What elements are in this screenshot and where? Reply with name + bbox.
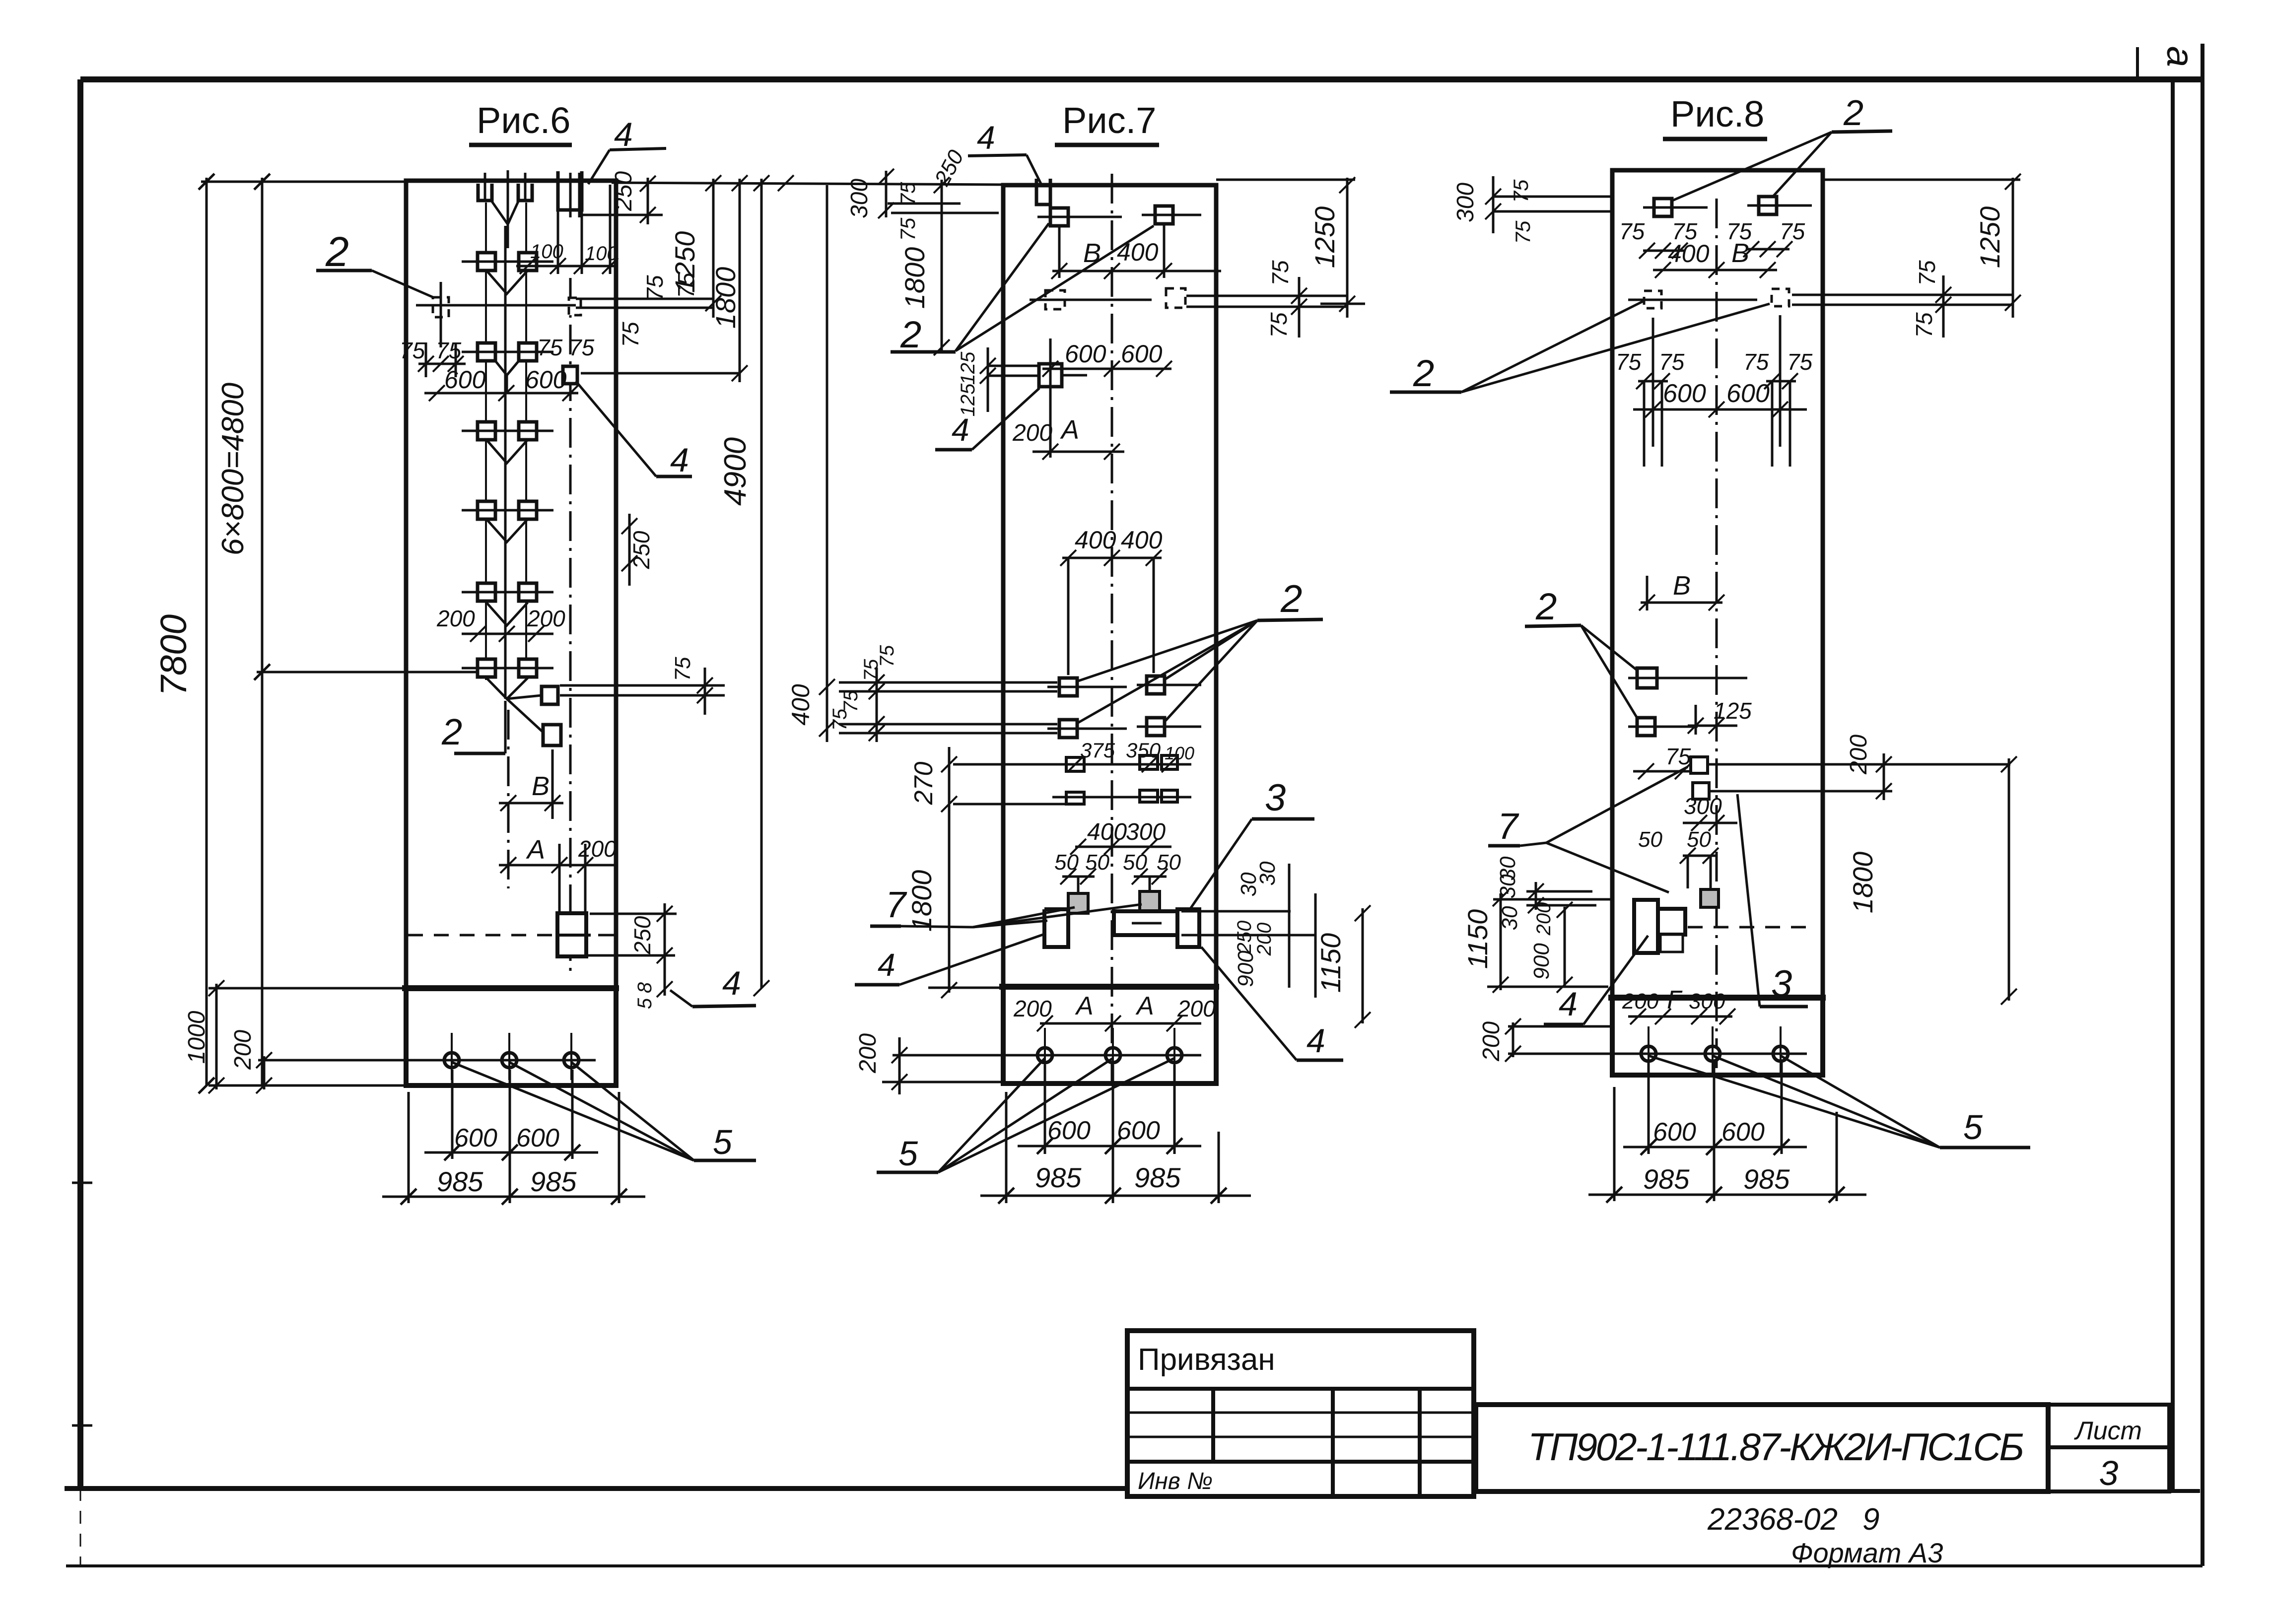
- fig7 dim 1800 left lower: [948, 814, 951, 993]
- fig8 panel lower part outline: [1612, 998, 1823, 1075]
- svg-text:600: 600: [1047, 1116, 1091, 1145]
- svg-text:125: 125: [957, 351, 979, 385]
- fig6 right dim vertical 1250: [712, 179, 715, 318]
- fig8 anchor hole circles: [1641, 1046, 1656, 1061]
- fig7 base bar plate: [1114, 911, 1177, 935]
- fig7 left top extension pair: [888, 203, 961, 205]
- svg-text:7800: 7800: [153, 614, 194, 696]
- svg-text:75: 75: [1665, 744, 1691, 769]
- fig8 dim vertical 1800 right: [2008, 758, 2010, 1001]
- svg-text:600: 600: [1663, 379, 1706, 408]
- svg-text:3: 3: [1771, 963, 1792, 1005]
- svg-text:1250: 1250: [1309, 206, 1340, 269]
- fig6 panel top notch: [558, 171, 582, 210]
- svg-text:1250: 1250: [669, 231, 700, 293]
- fig6 offset plate SqB: [543, 725, 561, 745]
- fig7 bottom extension lines: [1044, 1065, 1046, 1154]
- fig6 guide verticals at top loops: [484, 173, 486, 201]
- svg-text:75: 75: [618, 322, 643, 347]
- fig6 right top extension line: [612, 183, 1003, 185]
- fig8 line through dashed plates: [1628, 299, 1757, 301]
- svg-text:5: 5: [898, 1134, 918, 1173]
- fig8 embedded plate mid 2: [1637, 718, 1655, 736]
- svg-text:75: 75: [1743, 349, 1769, 375]
- svg-text:400: 400: [1121, 526, 1163, 554]
- fig6 dim 250 mid right: [628, 514, 631, 586]
- fig6 bent leads from row7 to offset plates: [486, 678, 528, 699]
- svg-text:75: 75: [876, 645, 898, 667]
- fig6 bottom extension lines: [451, 1070, 454, 1159]
- sheet frame right outer border: [2201, 44, 2204, 1566]
- sheet frame bottom border right part: [2168, 1489, 2200, 1493]
- svg-text:А: А: [1135, 992, 1154, 1020]
- fig8 left top extension pair: [1493, 196, 1612, 198]
- svg-text:1800: 1800: [906, 870, 937, 932]
- fig6 left dim vertical 6x800: [261, 178, 264, 1085]
- svg-text:985: 985: [1743, 1163, 1790, 1195]
- fig6 plate top extension: [590, 913, 677, 915]
- svg-text:600: 600: [516, 1124, 559, 1152]
- svg-text:400: 400: [1087, 819, 1127, 845]
- sheet frame left border: [77, 79, 83, 1489]
- svg-text:75: 75: [1616, 349, 1642, 375]
- fig7 panel lower part outline: [1003, 987, 1216, 1083]
- fig7 dashed plate mid right: [1166, 288, 1185, 308]
- svg-text:4: 4: [722, 964, 741, 1002]
- svg-text:4900: 4900: [718, 437, 753, 506]
- fig6 embedded plate pair row4: [478, 422, 495, 440]
- main title block box: [1476, 1405, 2048, 1491]
- svg-text:7: 7: [1498, 806, 1519, 847]
- svg-text:985: 985: [437, 1166, 483, 1197]
- svg-text:2: 2: [1843, 93, 1863, 133]
- fig6 line through circles: [386, 1059, 596, 1062]
- svg-text:600: 600: [525, 366, 567, 394]
- svg-text:50: 50: [1085, 850, 1109, 875]
- fig8 embedded plate top right: [1759, 197, 1777, 214]
- svg-text:600: 600: [1117, 1116, 1160, 1145]
- svg-text:4: 4: [878, 947, 895, 983]
- fig6 dim 250 notch depth: [647, 178, 649, 224]
- svg-text:2: 2: [441, 711, 462, 752]
- fig7 panel upper outline: [1003, 185, 1216, 987]
- fig6 division line left extension: [208, 987, 404, 990]
- svg-text:1150: 1150: [1462, 909, 1493, 969]
- svg-text:2: 2: [1535, 586, 1557, 628]
- fig7 stippled anchor plate left: [1068, 893, 1088, 913]
- fig7 panel top notch: [1036, 179, 1050, 204]
- svg-text:1250: 1250: [1974, 206, 2005, 269]
- svg-text:А: А: [1075, 992, 1094, 1020]
- svg-text:300: 300: [1452, 183, 1479, 222]
- svg-text:4: 4: [1559, 985, 1578, 1023]
- fig6 centerline axis right: [569, 278, 572, 973]
- fig7 embedded plate top left: [1050, 208, 1068, 226]
- svg-text:100: 100: [1165, 743, 1194, 763]
- fig6 lifting loop V under row6: [486, 603, 528, 625]
- svg-text:50: 50: [1157, 850, 1181, 875]
- svg-text:985: 985: [530, 1166, 577, 1197]
- svg-text:600: 600: [454, 1124, 497, 1152]
- svg-text:75: 75: [829, 708, 851, 731]
- fig6 horizontal line through plate level: [416, 304, 576, 307]
- svg-text:75: 75: [642, 275, 668, 301]
- svg-text:75: 75: [1787, 349, 1813, 375]
- fig6 extension from right plate: [581, 372, 740, 375]
- fig7 left extension pairs rows: [839, 681, 1057, 684]
- fig6 top dim connector line: [201, 181, 406, 183]
- fig8 base bracket plate: [1634, 900, 1658, 953]
- svg-text:600: 600: [1653, 1118, 1696, 1147]
- svg-text:Привязан: Привязан: [1138, 1343, 1275, 1377]
- svg-text:200: 200: [230, 1030, 256, 1070]
- stamp vertical divider 3: [1418, 1389, 1422, 1496]
- fig6 left dim vertical 7800: [206, 178, 208, 1085]
- fig8 base square plate: [1658, 909, 1685, 935]
- svg-text:2: 2: [325, 228, 349, 275]
- list box divider: [2048, 1445, 2169, 1449]
- svg-text:4: 4: [670, 441, 689, 479]
- fig7 dim 200 lower left: [898, 1037, 901, 1094]
- fig8 stippled anchor plate: [1701, 889, 1719, 907]
- fig8 embedded plate top left: [1654, 199, 1672, 216]
- svg-text:4: 4: [614, 116, 633, 153]
- fig8 dashed plate mid right: [1772, 289, 1789, 306]
- fig6 lifting loop V under row1: [492, 202, 518, 224]
- list box: [2048, 1405, 2169, 1491]
- sheet bottom edge line: [66, 1564, 2202, 1567]
- fig6 anchor loop row1 right: [518, 184, 532, 201]
- fig8 centerline axis: [1716, 199, 1718, 1075]
- svg-text:300: 300: [1684, 793, 1722, 819]
- fig6 dim 1000 lower left: [215, 984, 218, 1089]
- svg-text:75: 75: [671, 657, 695, 681]
- fig7 embedded plate group 2x2: [1059, 678, 1077, 696]
- svg-text:75: 75: [1266, 312, 1292, 338]
- svg-text:Инв №: Инв №: [1138, 1468, 1213, 1494]
- svg-text:600: 600: [1721, 1118, 1765, 1147]
- fig8 line through circles: [1579, 1053, 1807, 1055]
- fig6 dim 75 pair at offset plate: [560, 684, 725, 687]
- fig6 embed column guide line above top edge: [507, 170, 509, 228]
- fig6 extension pair from dashed plate: [576, 298, 713, 300]
- svg-text:9: 9: [1862, 1502, 1879, 1537]
- fold mark tick top right: [2136, 47, 2139, 81]
- fig6 dim 100 100 at notch: [516, 265, 616, 268]
- svg-text:100: 100: [585, 243, 618, 265]
- fig8 top dim connector: [1823, 179, 2020, 181]
- fig8 panel upper outline: [1612, 170, 1823, 998]
- svg-text:985: 985: [1035, 1162, 1082, 1193]
- svg-text:75: 75: [436, 338, 462, 363]
- svg-text:7: 7: [886, 884, 907, 925]
- fig7 panel division line: [999, 984, 1219, 990]
- svg-text:2: 2: [1280, 577, 1302, 620]
- stamp vertical divider 1: [1211, 1389, 1215, 1462]
- fig6 column axis right continuous: [525, 203, 527, 680]
- stamp thin row line 2: [1127, 1436, 1474, 1438]
- fig6 lifting loop V under row2: [486, 271, 528, 294]
- svg-text:200: 200: [578, 836, 617, 862]
- fig6 dashed plate at left edge: [433, 297, 449, 317]
- svg-text:200: 200: [1013, 996, 1052, 1021]
- fig7 centerline axis: [1111, 174, 1113, 1083]
- svg-text:75: 75: [1914, 260, 1940, 286]
- fig6 anchor loop row1 left: [478, 184, 492, 201]
- svg-text:А: А: [1060, 415, 1079, 445]
- svg-text:75: 75: [1659, 349, 1685, 375]
- fig8 dashed plate mid left: [1644, 291, 1661, 308]
- svg-text:5: 5: [1963, 1108, 1983, 1147]
- fig7 left dim vertical 400: [826, 185, 828, 742]
- sheet frame bottom border left part: [65, 1486, 1128, 1491]
- fig6 right dim vertical 1800: [739, 179, 741, 382]
- fig6 embedded plate pair row2: [478, 253, 495, 271]
- fig7 line through circles: [893, 1054, 1201, 1057]
- svg-text:4: 4: [977, 119, 995, 156]
- svg-text:600: 600: [1726, 379, 1770, 408]
- fig6 lifting loop V under row4: [486, 440, 528, 463]
- fig6 row7 extension to dim lines: [257, 671, 477, 674]
- svg-text:200: 200: [1012, 420, 1052, 446]
- svg-text:а: а: [2159, 46, 2201, 67]
- svg-text:250: 250: [628, 531, 654, 569]
- svg-text:1800: 1800: [710, 267, 741, 329]
- svg-text:375: 375: [1080, 739, 1115, 762]
- fig7 dim 270 left: [948, 747, 951, 814]
- fig8 small plate 2 with line: [1693, 783, 1709, 799]
- fig8 embedded plate mid 1: [1637, 668, 1657, 688]
- svg-text:250: 250: [629, 916, 655, 954]
- svg-text:600: 600: [1121, 340, 1163, 368]
- svg-text:600: 600: [1065, 340, 1106, 368]
- fig6 panel lower part outline: [406, 988, 616, 1085]
- svg-text:200: 200: [855, 1033, 881, 1074]
- stamp thin row line 1: [1127, 1412, 1474, 1414]
- svg-text:2: 2: [900, 314, 921, 356]
- fig7 base bracket plate right: [1177, 909, 1199, 947]
- fig7 dim vertical 1800 left: [941, 180, 943, 350]
- svg-text:3: 3: [1265, 777, 1286, 819]
- svg-text:300: 300: [846, 179, 873, 218]
- fig7 extension pair to right dims: [1186, 295, 1347, 297]
- fig6 panel division line: [402, 985, 619, 991]
- fig6 right dim vertical 4900: [760, 179, 763, 988]
- svg-text:400: 400: [1075, 526, 1116, 554]
- svg-text:50: 50: [1123, 850, 1147, 875]
- fig7 top dim connector: [1216, 179, 1355, 181]
- fig8 left lower extension lines: [1526, 890, 1592, 893]
- svg-text:200: 200: [527, 606, 565, 631]
- svg-text:75: 75: [1911, 312, 1937, 338]
- svg-text:1800: 1800: [1847, 852, 1878, 914]
- fig7 dim 1150 right: [1362, 908, 1364, 1023]
- left sheet edge stub below frame: [80, 1488, 81, 1566]
- fig7 left top dim vertical: [885, 171, 888, 217]
- svg-text:Рис.7: Рис.7: [1062, 100, 1156, 141]
- fig6 embedded plate pair row5: [478, 501, 495, 519]
- fig8 extension pair to right dims: [1792, 294, 2013, 296]
- svg-text:75: 75: [1619, 218, 1645, 244]
- svg-text:Рис.6: Рис.6: [477, 100, 570, 141]
- svg-text:2: 2: [1413, 352, 1434, 395]
- svg-text:200: 200: [1478, 1021, 1505, 1062]
- svg-text:Формат А3: Формат А3: [1791, 1537, 1943, 1568]
- svg-text:5: 5: [634, 998, 656, 1009]
- fig6 centerline axis left: [507, 710, 510, 888]
- svg-text:985: 985: [1643, 1163, 1690, 1195]
- fig6 dashed plate right axis upper: [569, 298, 581, 315]
- svg-text:1800: 1800: [899, 247, 930, 309]
- svg-text:250: 250: [1234, 921, 1255, 954]
- fig6 lifting loop V under row5: [486, 519, 528, 542]
- svg-text:200: 200: [1622, 989, 1659, 1014]
- svg-text:400: 400: [1117, 238, 1159, 266]
- fig6 lifting loop V under row3: [495, 360, 519, 375]
- stamp vertical divider 2: [1331, 1389, 1335, 1496]
- fig7 left dim ticks 75: [876, 668, 878, 742]
- fig7 stippled anchor plate right: [1140, 891, 1160, 911]
- fig6 dim 200 lower left: [263, 1056, 266, 1089]
- left border fold tick 1: [72, 1182, 92, 1184]
- svg-text:600: 600: [444, 366, 486, 394]
- fig8 small plate 1 with line: [1691, 757, 1708, 773]
- fig6 embedded plate pair row7: [478, 659, 495, 677]
- svg-text:В: В: [1673, 571, 1691, 601]
- fig8 dim 75 75 vertical right: [1942, 275, 1945, 338]
- svg-text:270: 270: [909, 762, 938, 806]
- svg-text:4: 4: [952, 412, 969, 448]
- fig7 base bracket plate left: [1044, 909, 1068, 947]
- svg-text:125: 125: [1714, 698, 1752, 724]
- svg-text:200: 200: [436, 606, 475, 631]
- svg-text:900: 900: [1529, 943, 1554, 980]
- svg-text:50: 50: [1638, 827, 1662, 852]
- svg-text:900: 900: [1234, 950, 1258, 987]
- svg-text:1000: 1000: [184, 1011, 210, 1064]
- left border fold tick 2: [72, 1424, 92, 1427]
- fig6 embedded plate pair row6: [478, 583, 495, 601]
- fig7 dim vertical 1250 right: [1346, 178, 1349, 318]
- svg-text:1150: 1150: [1315, 933, 1346, 993]
- svg-text:75: 75: [1267, 260, 1293, 286]
- fig8 dim 200 right: [1883, 753, 1885, 800]
- stamp row line above Inv: [1127, 1460, 1474, 1464]
- svg-text:3: 3: [2099, 1454, 2119, 1492]
- svg-text:75: 75: [1511, 220, 1534, 244]
- fig6 dim vertical 250 plate: [664, 903, 666, 996]
- svg-text:75: 75: [400, 338, 425, 363]
- svg-text:400: 400: [787, 684, 815, 726]
- svg-text:75: 75: [1509, 179, 1532, 203]
- fig7 line through dashed plates: [1030, 299, 1152, 301]
- svg-text:50: 50: [1687, 827, 1711, 852]
- svg-text:75: 75: [569, 335, 595, 360]
- svg-text:6×800=4800: 6×800=4800: [216, 383, 250, 555]
- svg-text:985: 985: [1134, 1162, 1181, 1193]
- fig7 dashed plate mid left: [1045, 290, 1065, 309]
- svg-text:300: 300: [1126, 819, 1166, 845]
- fig7 small plates row lower: [1066, 792, 1084, 804]
- fig6 panel upper outline: [406, 181, 616, 988]
- svg-text:В: В: [1731, 238, 1749, 268]
- fig7 small plates row upper: [1066, 757, 1084, 771]
- svg-text:75: 75: [896, 217, 919, 241]
- fig6 column axis left continuous: [485, 203, 487, 680]
- stamp row line under Privyazan: [1127, 1387, 1474, 1391]
- fig6 dashed line at plate level: [408, 934, 556, 937]
- svg-text:4: 4: [1307, 1022, 1325, 1060]
- svg-text:А: А: [526, 835, 545, 865]
- svg-text:5: 5: [713, 1123, 733, 1161]
- small stamp table (Privyazan) outline: [1127, 1331, 1474, 1496]
- fig8 left top dim vertical: [1492, 176, 1495, 233]
- svg-text:22368-02: 22368-02: [1707, 1502, 1838, 1537]
- fig6 plate on right axis: [563, 366, 577, 384]
- svg-text:200: 200: [1846, 735, 1872, 775]
- fig7 embedded plate left mid: [1039, 364, 1062, 387]
- fig7 embedded plate top right: [1155, 206, 1173, 224]
- fig7 dim 75 75 vertical right: [1298, 277, 1301, 338]
- fig8 dim vertical 1250 right: [2012, 178, 2014, 318]
- svg-text:75: 75: [1780, 218, 1805, 244]
- svg-text:8: 8: [634, 982, 656, 993]
- svg-text:200: 200: [1177, 996, 1216, 1021]
- svg-text:ТП902-1-111.87-КЖ2И-ПС1СБ: ТП902-1-111.87-КЖ2И-ПС1СБ: [1528, 1425, 2024, 1469]
- sheet frame right inner border: [2171, 81, 2175, 1492]
- svg-text:30: 30: [1496, 874, 1520, 898]
- fig8 panel division line: [1608, 995, 1826, 1001]
- fig6 embedded plate pair row3: [478, 343, 495, 361]
- svg-text:75: 75: [896, 182, 919, 205]
- fig8 dim 200 lower left: [1512, 1022, 1514, 1057]
- fig6 bottom embedded plate: [557, 913, 586, 956]
- sheet frame top border: [80, 76, 2202, 82]
- svg-text:Рис.8: Рис.8: [1670, 93, 1764, 135]
- svg-text:400: 400: [1668, 240, 1710, 268]
- svg-text:100: 100: [530, 241, 563, 263]
- svg-text:Лист: Лист: [2074, 1417, 2142, 1445]
- fig8 bottom extension lines: [1648, 1062, 1650, 1154]
- svg-text:75: 75: [537, 335, 563, 360]
- fig6 center bar solid: [504, 226, 507, 699]
- fig8 dashed line at plate level: [1688, 926, 1817, 929]
- svg-text:30: 30: [1255, 861, 1280, 885]
- fig6 anchor hole circles: [444, 1053, 459, 1068]
- svg-text:250: 250: [611, 171, 637, 211]
- fig7 anchor hole circles: [1037, 1048, 1052, 1063]
- fig6 offset plate SqA: [542, 686, 558, 704]
- svg-text:В: В: [532, 771, 550, 801]
